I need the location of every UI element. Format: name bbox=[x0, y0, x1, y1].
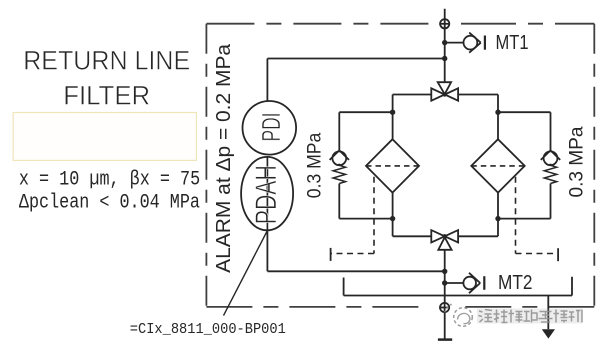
junction: F2 bottom bbox=[495, 216, 500, 221]
wire: V1 right port to right branch bbox=[458, 95, 498, 140]
wire: V2 bottom port down to outlet bbox=[444, 250, 446, 283]
svg-text:ALARM at Δp = 0.2 MPa: ALARM at Δp = 0.2 MPa bbox=[212, 43, 235, 273]
junction: lower sense tap bbox=[442, 269, 447, 274]
check valve CV2 (spring loaded, right) bbox=[541, 150, 560, 183]
svg-text:PDI: PDI bbox=[256, 113, 286, 142]
wire: F2 bottom leg bbox=[458, 193, 498, 237]
svg-text:x = 10 µm, βx = 75: x = 10 µm, βx = 75 bbox=[19, 168, 200, 191]
test point MT1 (measuring coupling) bbox=[464, 33, 485, 53]
filter F1 (left, diamond with dashed element) bbox=[366, 139, 419, 192]
check valve CV1 (spring loaded, left) bbox=[330, 150, 349, 183]
drain line right (dashed) from F2 bbox=[516, 177, 558, 254]
wire: main outlet vertical to bottom bbox=[444, 283, 446, 339]
enclosure border top (chain line) bbox=[206, 23, 594, 25]
wire: to check valve CV2 top bbox=[498, 112, 551, 150]
leader line from PDAH to item label bbox=[224, 231, 268, 316]
svg-text:0.3 MPa: 0.3 MPa bbox=[304, 132, 325, 198]
valve V2: bottom changeover valve bowtie bbox=[431, 230, 458, 250]
junction: MT1 tap bbox=[442, 40, 447, 45]
enclosure border bottom (chain line) bbox=[206, 306, 594, 308]
wire: V1 left port to left branch bbox=[393, 95, 432, 140]
watermark logo circle bbox=[444, 304, 472, 327]
highlight box (empty, pale yellow border) bbox=[13, 113, 196, 161]
drain line left (dashed) from F1 bbox=[331, 177, 374, 254]
wire: branch to MT1 bbox=[445, 42, 464, 44]
svg-text:MT1: MT1 bbox=[496, 31, 529, 54]
gauge PDAH (differential pressure alarm high) bbox=[241, 157, 293, 230]
valve V1: top changeover valve bowtie bbox=[431, 82, 458, 101]
wire: upper sense line to PDI bbox=[267, 59, 444, 102]
wire: drop to tank bbox=[547, 296, 549, 330]
filter F2 (right, diamond with dashed element) bbox=[471, 139, 524, 192]
wire: CV1 bottom to left filter bottom junction bbox=[339, 184, 392, 219]
wire: lower sense line from PDAH to outlet bbox=[267, 230, 444, 271]
test point MT2 (measuring coupling) bbox=[463, 273, 484, 293]
svg-text:=CIx_8811_000-BP001: =CIx_8811_000-BP001 bbox=[130, 321, 286, 338]
wire: F1 bottom leg bbox=[393, 193, 432, 237]
enclosure border left (chain line) bbox=[205, 24, 207, 307]
enclosure border right (chain line) bbox=[593, 24, 595, 307]
svg-text:MT2: MT2 bbox=[498, 271, 533, 294]
junction: upper gauge sense tap bbox=[442, 56, 447, 61]
bulkhead connector top (circle with cross) bbox=[439, 19, 450, 30]
port end bar at bottom bbox=[438, 338, 452, 341]
wire: drain collector manifold bbox=[344, 277, 572, 296]
svg-text:0.3 MPa: 0.3 MPa bbox=[567, 126, 588, 197]
junction: F1 bottom bbox=[390, 216, 395, 221]
svg-text:FILTER: FILTER bbox=[63, 81, 150, 111]
svg-text:Δpclean < 0.04 MPa: Δpclean < 0.04 MPa bbox=[19, 192, 200, 215]
bulkhead connector bottom (circle with cross) bbox=[439, 302, 450, 313]
plugged port T-bar left bbox=[330, 248, 332, 261]
svg-text:RETURN LINE: RETURN LINE bbox=[23, 46, 190, 76]
wire: branch to MT2 bbox=[445, 282, 464, 284]
gauge PDI (differential pressure indicator) bbox=[242, 101, 296, 155]
svg-text:PDAH: PDAH bbox=[250, 165, 283, 224]
plugged port T-bar right bbox=[557, 248, 559, 261]
junction: MT2 tap bbox=[442, 280, 447, 285]
wire: to check valve CV1 top bbox=[339, 112, 392, 150]
watermark text backdrop bbox=[477, 309, 582, 324]
watermark text (CJK glyph blocks) bbox=[479, 310, 583, 323]
junction: right branch top bbox=[495, 110, 500, 115]
tank / drain symbol (filled triangle) bbox=[542, 329, 555, 338]
wire: CV2 bottom to right filter bottom junction bbox=[498, 184, 551, 219]
wire: main inlet vertical from top bbox=[444, 9, 446, 83]
junction: left branch top bbox=[390, 110, 395, 115]
